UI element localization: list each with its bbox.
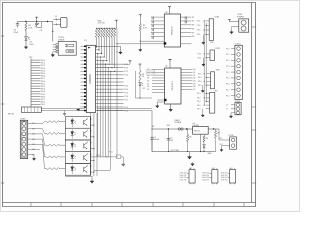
svg-text:P1.7: P1.7 — [124, 71, 128, 73]
svg-text:P3.0: P3.0 — [198, 73, 202, 75]
svg-text:U3: U3 — [165, 12, 167, 14]
svg-text:P1.5: P1.5 — [124, 93, 128, 95]
svg-text:LS1: LS1 — [230, 168, 233, 170]
svg-text:P2.3: P2.3 — [226, 66, 230, 68]
svg-text:P3.0: P3.0 — [197, 101, 201, 103]
svg-text:Q3: Q3 — [193, 78, 195, 80]
svg-text:D2: D2 — [143, 88, 145, 90]
svg-text:AT89S52: AT89S52 — [89, 73, 92, 83]
svg-text:R3: R3 — [192, 25, 194, 27]
svg-text:K100: K100 — [96, 155, 100, 157]
svg-text:10uF 25V: 10uF 25V — [221, 173, 229, 175]
svg-text:GND: GND — [207, 153, 212, 155]
svg-text:4.7K: 4.7K — [28, 27, 33, 29]
svg-text:10uF 25V: 10uF 25V — [221, 177, 229, 179]
svg-text:74HC573: 74HC573 — [172, 81, 174, 91]
svg-text:D6: D6 — [147, 86, 149, 88]
svg-text:P2.4: P2.4 — [226, 72, 230, 74]
svg-text:OUT PWR: OUT PWR — [170, 150, 179, 152]
svg-text:10uF 25V: 10uF 25V — [202, 179, 210, 181]
svg-text:10uF 25V: 10uF 25V — [180, 175, 188, 177]
svg-text:POWER: POWER — [174, 122, 181, 124]
svg-text:P2.2: P2.2 — [226, 60, 230, 62]
svg-text:P3.0: P3.0 — [198, 57, 202, 59]
svg-text:P2.6: P2.6 — [226, 84, 230, 86]
svg-text:1000uF: 1000uF — [154, 139, 160, 141]
svg-text:D4: D4 — [147, 81, 149, 83]
svg-text:10uF 25V: 10uF 25V — [180, 173, 188, 175]
svg-text:CON2: CON2 — [215, 48, 220, 50]
svg-text:R2: R2 — [192, 21, 194, 23]
svg-text:LS1: LS1 — [212, 168, 215, 170]
svg-text:10uF 25V: 10uF 25V — [221, 175, 229, 177]
svg-text:R6: R6 — [192, 36, 194, 38]
svg-text:Q7: Q7 — [193, 89, 195, 91]
svg-text:P2.0: P2.0 — [226, 95, 230, 97]
svg-text:P2.0: P2.0 — [109, 152, 113, 154]
svg-text:P3.0: P3.0 — [198, 81, 202, 83]
svg-text:P1.6: P1.6 — [124, 96, 128, 98]
svg-text:D5: D5 — [147, 83, 149, 85]
svg-text:10uF 25V: 10uF 25V — [202, 177, 210, 179]
svg-text:LS1: LS1 — [189, 168, 192, 170]
svg-text:CON4: CON4 — [214, 17, 219, 19]
svg-text:MAX232: MAX232 — [170, 26, 173, 35]
svg-text:U2: U2 — [165, 66, 167, 68]
svg-text:47uF: 47uF — [14, 32, 19, 34]
svg-text:P3.0: P3.0 — [197, 98, 201, 100]
svg-text:P3.0: P3.0 — [198, 54, 202, 56]
svg-text:4.7K X8: 4.7K X8 — [98, 23, 106, 25]
svg-text:10uF 25V: 10uF 25V — [202, 173, 210, 175]
svg-text:10uF 25V: 10uF 25V — [180, 177, 188, 179]
svg-text:P3.0: P3.0 — [197, 30, 201, 32]
svg-text:POWER: POWER — [237, 17, 244, 19]
svg-text:P3.0: P3.0 — [198, 85, 202, 87]
svg-text:Q5: Q5 — [193, 83, 195, 85]
svg-text:P3.0: P3.0 — [197, 93, 201, 95]
svg-text:P3.0: P3.0 — [197, 25, 201, 27]
svg-text:10uF 25V: 10uF 25V — [202, 175, 210, 177]
svg-text:R1: R1 — [192, 17, 194, 19]
svg-text:P3.0: P3.0 — [197, 34, 201, 36]
svg-text:LED: LED — [30, 44, 34, 46]
svg-text:Q1: Q1 — [193, 72, 195, 74]
svg-text:104: 104 — [170, 140, 173, 142]
svg-text:R5: R5 — [192, 32, 194, 34]
svg-text:R4: R4 — [192, 28, 194, 30]
svg-text:VIN VO: VIN VO — [194, 130, 201, 132]
svg-text:P1.4: P1.4 — [124, 89, 128, 91]
svg-text:P3.0: P3.0 — [198, 77, 202, 79]
svg-text:Q6: Q6 — [193, 86, 195, 88]
svg-text:10uF 25V: 10uF 25V — [221, 179, 229, 181]
svg-text:P1.3: P1.3 — [124, 85, 128, 87]
svg-text:P1.1: P1.1 — [124, 107, 128, 109]
svg-text:JP2: JP2 — [215, 90, 218, 92]
svg-text:P3.0: P3.0 — [197, 21, 201, 23]
svg-text:Q0: Q0 — [193, 69, 195, 71]
svg-text:D3: D3 — [147, 78, 149, 80]
svg-text:R9: R9 — [189, 137, 191, 139]
svg-text:P3.0: P3.0 — [197, 105, 201, 107]
svg-text:R8: R8 — [206, 138, 208, 140]
svg-text:P1.0: P1.0 — [124, 75, 128, 77]
svg-text:Q2: Q2 — [193, 75, 195, 77]
svg-text:P2.1: P2.1 — [226, 54, 230, 56]
svg-text:P2.7: P2.7 — [226, 89, 230, 91]
svg-text:KEY IN: KEY IN — [8, 114, 15, 116]
svg-text:P2.0: P2.0 — [226, 48, 230, 50]
svg-text:10uF 25V: 10uF 25V — [180, 179, 188, 181]
svg-text:P2.5: P2.5 — [226, 78, 230, 80]
svg-text:P1.7: P1.7 — [124, 100, 128, 102]
svg-text:P1.6: P1.6 — [124, 68, 128, 70]
svg-text:Q4: Q4 — [193, 81, 195, 83]
svg-text:P3.0: P3.0 — [197, 108, 201, 110]
svg-text:D7: D7 — [147, 89, 149, 91]
